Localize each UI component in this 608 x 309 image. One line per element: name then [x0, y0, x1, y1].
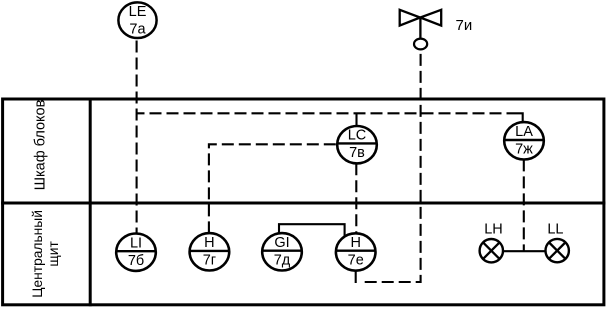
wire between lamps LH and LL: [503, 250, 546, 252]
wire valve dashed line down and left to H 7е: [361, 54, 421, 282]
alarm LA 7ж: [504, 122, 544, 159]
indicator GI 7д: [262, 233, 302, 270]
row divider: [1, 202, 605, 205]
label column divider: [89, 98, 92, 307]
svg-text:7г: 7г: [203, 253, 216, 269]
svg-text:7в: 7в: [349, 145, 365, 161]
svg-text:7е: 7е: [348, 252, 364, 268]
wire LA dashed down to lamps: [523, 159, 525, 251]
device H 7г: [190, 233, 230, 270]
svg-text:H: H: [350, 235, 360, 251]
label Шкаф блоков: [33, 99, 49, 190]
svg-text:7д: 7д: [274, 252, 291, 268]
svg-text:7б: 7б: [128, 253, 144, 269]
svg-text:7и: 7и: [456, 17, 473, 34]
lamp LL: [546, 222, 569, 263]
wire H 7г dashed up and right to LC: [209, 144, 337, 233]
wire stub H 7е bottom: [355, 271, 357, 283]
lamp LH: [480, 222, 503, 263]
label Центральный щит: [30, 210, 61, 298]
svg-text:LL: LL: [547, 222, 563, 238]
svg-text:LI: LI: [130, 235, 142, 251]
cabinet outline box: [3, 99, 604, 305]
svg-text:7а: 7а: [129, 21, 146, 37]
svg-text:LA: LA: [515, 124, 533, 140]
svg-text:Шкаф блоков: Шкаф блоков: [33, 99, 49, 190]
device H 7е: [336, 233, 376, 270]
wire LE down to LI (dashed): [136, 41, 138, 234]
svg-text:LC: LC: [348, 128, 367, 144]
wire GI solid to H 7е: [279, 224, 345, 237]
svg-text:7ж: 7ж: [515, 142, 533, 158]
controller LC 7в: [337, 126, 377, 163]
svg-text:GI: GI: [274, 235, 289, 251]
svg-text:H: H: [204, 235, 214, 251]
wire stub down to LC: [355, 113, 357, 127]
indicator LI 7б: [116, 234, 156, 271]
wire dashed horizontal bus to LA: [138, 112, 514, 114]
wire LC down to H 7е (dashed): [355, 163, 357, 233]
svg-text:LE: LE: [129, 4, 147, 20]
level sensor LE 7а: [118, 2, 156, 38]
valve 7и: [400, 10, 473, 50]
svg-text:LH: LH: [484, 222, 503, 238]
wire corner into LA: [513, 113, 523, 123]
